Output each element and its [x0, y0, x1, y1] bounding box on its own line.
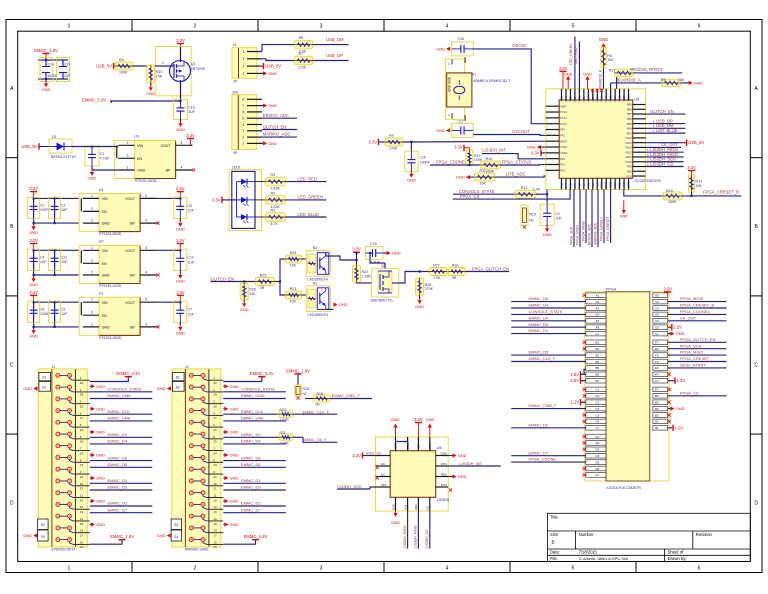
svg-text:LIS3DH_MOSI: LIS3DH_MOSI — [403, 526, 407, 548]
svg-text:VOUT: VOUT — [125, 197, 136, 201]
wire — [72, 146, 118, 148]
svg-text:PB9: PB9 — [627, 103, 632, 107]
svg-text:6: 6 — [698, 566, 701, 572]
svg-text:C13: C13 — [64, 63, 70, 67]
svg-text:EN: EN — [102, 210, 107, 214]
svg-text:S1: S1 — [42, 375, 46, 379]
svg-text:GND: GND — [694, 81, 703, 86]
U5 left pin stubs — [376, 456, 391, 488]
svg-text:PB2: PB2 — [591, 183, 595, 188]
wire — [255, 51, 262, 53]
svg-text:PB14: PB14 — [613, 95, 617, 102]
power 3.3V — [190, 144, 192, 146]
ground — [262, 142, 263, 144]
svg-text:LED_GREEN: LED_GREEN — [298, 195, 323, 200]
ground — [681, 82, 689, 84]
LED resistor R3 — [255, 181, 266, 183]
svg-text:3: 3 — [320, 566, 323, 572]
svg-text:B4: B4 — [596, 360, 600, 364]
svg-text:Sheet of: Sheet of — [668, 550, 684, 555]
svg-text:C5: C5 — [596, 413, 600, 417]
svg-text:PA0: PA0 — [560, 157, 565, 161]
svg-text:B5: B5 — [596, 366, 600, 370]
svg-text:PB13: PB13 — [609, 181, 613, 188]
svg-text:1: 1 — [68, 566, 71, 572]
svg-text:2: 2 — [127, 166, 129, 170]
connector J2 mount pads S1 S2 — [172, 372, 184, 380]
svg-text:PB0: PB0 — [582, 183, 586, 188]
svg-text:21: 21 — [80, 487, 84, 491]
svg-text:NC: NC — [381, 472, 385, 476]
svg-text:C7: C7 — [187, 308, 192, 312]
svg-text:26: 26 — [213, 428, 217, 432]
svg-text:VOUT: VOUT — [125, 301, 136, 305]
svg-text:C8: C8 — [40, 307, 44, 311]
ground — [466, 175, 470, 179]
svg-text:19: 19 — [80, 510, 84, 514]
capacitor C2 100PF — [28, 197, 40, 218]
svg-text:3: 3 — [243, 57, 245, 61]
FPGA left pin boxes — [586, 293, 606, 477]
ground — [668, 333, 671, 335]
net label FPGA_CBSEL0 vertical — [603, 190, 605, 244]
svg-text:S2: S2 — [176, 385, 180, 389]
svg-text:E7: E7 — [655, 388, 659, 392]
svg-text:CKD15901F4: CKD15901F4 — [307, 278, 328, 282]
no-connect marks FPGA right — [668, 373, 671, 376]
svg-text:VOUT: VOUT — [125, 249, 136, 253]
svg-text:3: 3 — [127, 154, 129, 158]
svg-text:2.00R: 2.00R — [280, 441, 290, 445]
svg-text:EMMC_D6: EMMC_D6 — [241, 455, 261, 460]
svg-text:LIS3DH_MISO: LIS3DH_MISO — [414, 525, 418, 548]
svg-text:1: 1 — [243, 72, 245, 76]
svg-text:GND: GND — [583, 71, 592, 76]
svg-text:1.2V: 1.2V — [673, 325, 682, 330]
svg-text:100K: 100K — [668, 200, 677, 204]
transistor NC5 spare — [521, 205, 528, 225]
power 2.5V — [157, 197, 181, 199]
wire — [45, 57, 47, 60]
resistor R13 10K — [147, 65, 155, 83]
ground — [262, 105, 263, 107]
svg-text:C1: C1 — [596, 388, 600, 392]
svg-text:4: 4 — [242, 123, 244, 127]
svg-text:C6: C6 — [655, 300, 659, 304]
svg-text:EMMC_CMD: EMMC_CMD — [241, 393, 265, 398]
wire — [39, 146, 49, 148]
svg-text:RT9193-18GB: RT9193-18GB — [99, 336, 122, 340]
svg-text:PC13: PC13 — [560, 110, 567, 114]
svg-text:FPGA_STATUS: FPGA_STATUS — [502, 160, 532, 165]
svg-text:PA6: PA6 — [573, 183, 577, 188]
svg-text:C2: C2 — [596, 394, 600, 398]
capacitor C14 100NF — [40, 58, 53, 82]
svg-text:EMMC_UNK: EMMC_UNK — [241, 416, 264, 421]
svg-text:FPGA_CRESET_B: FPGA_CRESET_B — [680, 303, 715, 308]
svg-text:EMMC_CMD: EMMC_CMD — [108, 393, 132, 398]
resistor R25 0R — [255, 278, 274, 286]
svg-text:6: 6 — [242, 110, 244, 114]
svg-text:D3: D3 — [596, 448, 600, 452]
ground — [179, 271, 181, 274]
svg-text:1: 1 — [162, 61, 164, 65]
svg-text:3: 3 — [91, 311, 93, 315]
no-connect marks — [376, 466, 379, 469]
svg-text:ABM8R-8.000MHZ-B2-T: ABM8R-8.000MHZ-B2-T — [473, 79, 510, 83]
svg-text:1UF: 1UF — [64, 74, 70, 78]
svg-text:10K: 10K — [480, 182, 487, 186]
ground — [150, 83, 152, 86]
resistor R23 10K — [286, 291, 302, 299]
svg-text:B1: B1 — [596, 341, 600, 345]
svg-text:R2: R2 — [271, 191, 276, 195]
svg-text:PA9: PA9 — [627, 165, 632, 169]
svg-text:B2: B2 — [596, 347, 600, 351]
MCU right pin stubs — [626, 103, 646, 179]
svg-text:EMMC_D2: EMMC_D2 — [529, 422, 549, 427]
svg-text:PB3: PB3 — [627, 131, 632, 135]
svg-text:B2: B2 — [655, 420, 659, 424]
resistor R27 2.0K — [429, 268, 447, 276]
svg-text:GND: GND — [96, 453, 105, 458]
capacitor C13 1UF — [57, 58, 70, 82]
svg-text:LITE_ADC: LITE_ADC — [506, 171, 526, 176]
svg-text:PA3: PA3 — [560, 183, 564, 188]
svg-text:100NF: 100NF — [420, 160, 430, 164]
svg-text:EMMC_D5: EMMC_D5 — [529, 350, 549, 355]
svg-text:GND: GND — [29, 282, 38, 287]
svg-text:C15: C15 — [188, 105, 195, 109]
svg-text:GND: GND — [240, 307, 249, 312]
svg-text:R12: R12 — [521, 186, 528, 190]
svg-text:J3A: J3A — [232, 91, 239, 95]
svg-text:B5: B5 — [655, 401, 659, 405]
capacitor C11 1UF — [49, 249, 61, 270]
net label FPGA_MOSI vertical — [585, 190, 587, 244]
svg-text:R24: R24 — [290, 251, 297, 255]
transistor N1 CKD15901F4 — [306, 286, 330, 312]
svg-text:G3: G3 — [655, 306, 659, 310]
svg-text:2.00R: 2.00R — [280, 418, 290, 422]
svg-text:C6: C6 — [596, 420, 600, 424]
svg-text:VDD_IO: VDD_IO — [366, 450, 381, 455]
svg-text:ERISTA_ADC: ERISTA_ADC — [263, 113, 289, 118]
svg-text:D: D — [754, 501, 758, 507]
svg-text:1: 1 — [91, 246, 93, 250]
svg-text:27: 27 — [213, 416, 217, 420]
wire — [482, 154, 546, 159]
svg-text:Size: Size — [550, 532, 559, 537]
svg-text:GND: GND — [456, 175, 465, 180]
svg-text:4: 4 — [145, 271, 147, 275]
svg-text:25: 25 — [80, 440, 84, 444]
svg-text:GLITCH_EN: GLITCH_EN — [263, 124, 287, 129]
wire — [112, 100, 181, 102]
svg-text:FPGA_CBSEL0: FPGA_CBSEL0 — [600, 217, 604, 241]
svg-text:C4: C4 — [596, 407, 600, 411]
ground VSSA — [537, 145, 541, 149]
svg-text:GND: GND — [146, 91, 155, 96]
wire — [274, 281, 280, 283]
svg-text:17: 17 — [213, 533, 217, 537]
wire — [91, 166, 93, 170]
svg-text:3.3V: 3.3V — [454, 144, 463, 149]
svg-text:R11: R11 — [480, 169, 486, 173]
svg-text:GND: GND — [96, 384, 105, 389]
svg-text:NC: NC — [381, 462, 385, 466]
svg-text:A5: A5 — [596, 319, 600, 323]
svg-text:EMMC_CMD_F: EMMC_CMD_F — [332, 393, 361, 398]
svg-text:PC13: PC13 — [568, 95, 572, 102]
svg-text:PB11: PB11 — [600, 95, 604, 102]
svg-text:GND: GND — [96, 476, 105, 481]
power 1.8V — [157, 301, 181, 303]
svg-text:10: 10 — [80, 482, 84, 486]
power EMMC_3.3V — [90, 377, 129, 382]
svg-text:EMMC_D2: EMMC_D2 — [241, 501, 261, 506]
svg-text:FPGA_CS: FPGA_CS — [680, 390, 699, 395]
svg-text:RT9193-33GB: RT9193-33GB — [135, 179, 158, 183]
svg-text:GND: GND — [42, 87, 51, 92]
svg-text:C12: C12 — [187, 256, 194, 260]
svg-text:1UF: 1UF — [187, 260, 195, 264]
svg-text:FPGA_CDONE1: FPGA_CDONE1 — [680, 309, 711, 314]
svg-text:VIN: VIN — [137, 144, 143, 148]
ground — [90, 385, 91, 387]
svg-text:FPGA_CDONE: FPGA_CDONE — [436, 160, 465, 165]
svg-text:VIN: VIN — [102, 197, 108, 201]
resistor R17 0R — [616, 73, 618, 89]
svg-text:3.3V: 3.3V — [352, 453, 361, 458]
svg-text:1UF: 1UF — [187, 209, 195, 213]
svg-text:30: 30 — [80, 381, 84, 385]
ground — [448, 476, 452, 478]
transistor N2 CKD15901F4 — [306, 251, 330, 277]
wire — [691, 193, 693, 196]
svg-text:GND: GND — [676, 406, 685, 411]
svg-text:C: C — [10, 363, 14, 369]
svg-text:NC: NC — [529, 218, 534, 222]
svg-text:GLITCH_EN: GLITCH_EN — [650, 109, 674, 114]
svg-text:F5: F5 — [655, 353, 659, 357]
capacitor C19 100NF — [410, 142, 412, 151]
svg-text:VDD3: VDD3 — [627, 181, 631, 188]
ground — [180, 120, 182, 123]
svg-text:10K: 10K — [607, 58, 614, 62]
resistor R14 10K — [691, 173, 693, 176]
svg-text:21: 21 — [213, 487, 217, 491]
net label FPGA_CRESET vertical — [610, 190, 612, 244]
capacitor C3 1UF — [49, 197, 61, 218]
svg-text:B4: B4 — [655, 407, 659, 411]
svg-text:CONSOLE_STATE: CONSOLE_STATE — [529, 309, 563, 314]
svg-text:D6: D6 — [596, 467, 600, 471]
svg-text:14: 14 — [80, 529, 84, 533]
svg-text:1UF: 1UF — [61, 208, 67, 212]
svg-text:2: 2 — [243, 64, 245, 68]
svg-text:N2: N2 — [313, 246, 318, 250]
svg-text:U2: U2 — [99, 240, 104, 244]
MCU bottom pin stubs — [560, 178, 631, 189]
transistor Q2 S8A786A — [372, 268, 399, 297]
svg-text:GND: GND — [23, 386, 32, 391]
svg-text:GD32_NTRST: GD32_NTRST — [680, 363, 707, 368]
svg-text:3.3V: 3.3V — [531, 150, 540, 155]
svg-text:J1: J1 — [51, 365, 55, 369]
svg-text:S8A786A-(TX): S8A786A-(TX) — [371, 299, 393, 303]
svg-text:VIN: VIN — [102, 301, 108, 305]
svg-text:100K: 100K — [119, 71, 128, 75]
voltage regulator U4 RT9193-25GB — [79, 194, 140, 232]
ground — [262, 72, 263, 74]
svg-text:3.3V: 3.3V — [368, 140, 377, 145]
svg-text:A3: A3 — [596, 306, 600, 310]
svg-text:EMMC_D0: EMMC_D0 — [529, 315, 549, 320]
svg-text:PB6: PB6 — [627, 117, 632, 121]
svg-text:1: 1 — [127, 141, 129, 145]
svg-text:EMMC_3.3V: EMMC_3.3V — [250, 371, 274, 376]
svg-text:1: 1 — [242, 142, 244, 146]
svg-text:U5: U5 — [437, 446, 442, 450]
svg-text:PB15: PB15 — [618, 181, 622, 188]
wire — [262, 59, 295, 61]
svg-text:GND: GND — [102, 274, 110, 278]
svg-text:C7: C7 — [596, 426, 600, 430]
svg-text:FPGA: FPGA — [606, 287, 617, 291]
svg-text:GND: GND — [676, 331, 685, 336]
resistor R8 — [115, 62, 133, 70]
svg-text:3: 3 — [91, 207, 93, 211]
svg-text:1UF: 1UF — [188, 110, 196, 114]
svg-text:16: 16 — [80, 545, 84, 549]
svg-text:LED_GREEN: LED_GREEN — [569, 43, 573, 65]
svg-text:GND: GND — [88, 176, 97, 181]
svg-text:EMMC_CLK_F: EMMC_CLK_F — [529, 356, 556, 361]
MCU left pin stubs — [546, 104, 568, 172]
svg-text:EMMC_D3: EMMC_D3 — [241, 485, 261, 490]
svg-text:C1: C1 — [655, 332, 659, 336]
svg-text:PA13: PA13 — [626, 146, 633, 150]
capacitor C4 1UF — [28, 249, 40, 270]
capacitor C1 4.7UF — [85, 146, 99, 166]
svg-text:3.3V: 3.3V — [212, 197, 221, 202]
svg-text:CONSOLE_STATE: CONSOLE_STATE — [108, 387, 142, 392]
svg-text:EMMC_CMD_F: EMMC_CMD_F — [529, 403, 558, 408]
svg-text:S4: S4 — [41, 535, 45, 539]
svg-text:EMMC_UNK: EMMC_UNK — [108, 416, 131, 421]
svg-text:C14: C14 — [48, 63, 54, 67]
svg-text:4P: 4P — [234, 80, 238, 84]
svg-text:GND: GND — [96, 499, 105, 504]
svg-text:VBAT: VBAT — [564, 95, 568, 102]
capacitor C7 1UF — [174, 301, 187, 322]
svg-text:GND: GND — [230, 522, 239, 527]
ground — [179, 322, 181, 325]
wire — [584, 369, 586, 374]
svg-text:PA8: PA8 — [627, 169, 632, 173]
svg-text:RES: RES — [441, 472, 447, 476]
ground — [33, 275, 35, 277]
svg-text:N1: N1 — [313, 281, 318, 285]
svg-text:15: 15 — [213, 540, 217, 544]
power 1.2V — [157, 249, 181, 251]
ground — [223, 500, 224, 502]
svg-text:GND: GND — [619, 214, 628, 219]
svg-text:2: 2 — [194, 24, 197, 30]
svg-text:11: 11 — [80, 494, 83, 498]
svg-text:B6: B6 — [655, 394, 659, 398]
svg-text:R6: R6 — [299, 36, 304, 40]
svg-text:PB11: PB11 — [600, 181, 604, 188]
svg-text:0R: 0R — [260, 286, 265, 290]
svg-text:GND: GND — [230, 499, 239, 504]
svg-text:29: 29 — [80, 393, 84, 397]
svg-text:GND: GND — [23, 533, 32, 538]
net label FPGA_SCK vertical — [573, 190, 575, 248]
svg-text:EMMC_1.8V: EMMC_1.8V — [286, 368, 310, 373]
svg-text:LIS3DH_CS: LIS3DH_CS — [425, 529, 429, 548]
no-connect marks FPGA left — [583, 294, 586, 297]
svg-text:7: 7 — [242, 104, 244, 108]
svg-text:PA10: PA10 — [626, 160, 633, 164]
svg-text:ERISTA_ADC: ERISTA_ADC — [588, 223, 592, 245]
svg-text:PB10: PB10 — [595, 95, 599, 102]
svg-text:MARIKO_ADC: MARIKO_ADC — [594, 222, 598, 245]
svg-text:PB15: PB15 — [618, 95, 622, 102]
svg-text:PB12: PB12 — [604, 95, 608, 102]
svg-text:GND: GND — [391, 504, 395, 510]
svg-text:VOUT: VOUT — [161, 144, 172, 148]
svg-text:C0: C0 — [655, 319, 659, 323]
svg-text:FPGA_CRESET_B: FPGA_CRESET_B — [703, 190, 739, 195]
svg-text:10K: 10K — [696, 184, 703, 188]
svg-text:EN: EN — [102, 314, 107, 318]
ground — [567, 80, 569, 89]
svg-text:1.8V: 1.8V — [570, 372, 579, 377]
svg-text:A7: A7 — [596, 332, 600, 336]
capacitor C15 1UF — [174, 100, 188, 120]
wire — [574, 37, 576, 89]
svg-text:12: 12 — [213, 505, 217, 509]
svg-text:24: 24 — [80, 451, 84, 455]
svg-text:GND: GND — [543, 232, 552, 237]
svg-text:EMMC_D7: EMMC_D7 — [529, 450, 549, 455]
svg-text:BP: BP — [166, 169, 171, 173]
wire — [578, 42, 580, 89]
svg-text:GD32F330C8T6: GD32F330C8T6 — [634, 179, 660, 183]
net label ERISTA_ADC vertical — [591, 190, 593, 248]
svg-text:VSSA: VSSA — [586, 95, 590, 102]
svg-text:C11: C11 — [61, 255, 67, 259]
svg-text:R10: R10 — [486, 157, 493, 161]
svg-text:GND: GND — [391, 417, 400, 422]
wire NRST — [403, 140, 546, 143]
svg-text:B6: B6 — [596, 373, 600, 377]
ground — [223, 524, 224, 526]
svg-text:S3: S3 — [41, 523, 45, 527]
svg-text:BOARDID_A: BOARDID_A — [617, 78, 641, 83]
svg-text:INT1: INT1 — [441, 462, 448, 466]
svg-text:GND: GND — [458, 453, 467, 458]
svg-text:File:: File: — [550, 556, 558, 561]
svg-text:25: 25 — [213, 440, 217, 444]
svg-text:2: 2 — [194, 566, 197, 572]
svg-text:EMMC_D0: EMMC_D0 — [108, 432, 128, 437]
power USB_5V — [646, 142, 687, 144]
svg-text:5: 5 — [145, 298, 147, 302]
svg-text:USB_DM: USB_DM — [326, 37, 344, 42]
